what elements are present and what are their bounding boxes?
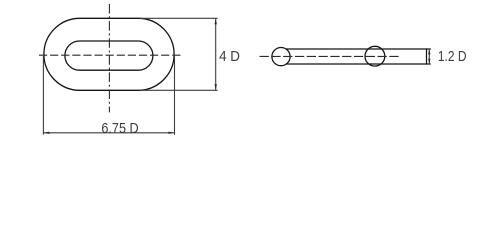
arrowhead 4 D top bbox=[215, 19, 217, 25]
dimension line 6.75 D bbox=[43, 132, 174, 134]
extension line left (6.75 D) bbox=[42, 56, 44, 135]
link cross-section circle left bbox=[272, 48, 290, 66]
arrowhead 1.2 D bottom bbox=[428, 59, 430, 64]
arrowhead 4 D bottom bbox=[215, 84, 217, 90]
extension line right (6.75 D) bbox=[174, 56, 176, 135]
svg-text:1.2 D: 1.2 D bbox=[438, 49, 467, 65]
extension line bottom (4 D) bbox=[140, 89, 218, 91]
vertical centerline (front view) bbox=[108, 4, 110, 112]
arrowhead 1.2 D top bbox=[428, 49, 430, 54]
chain link outer outline (front view) bbox=[44, 18, 174, 90]
arrowhead 6.75 D right bbox=[169, 132, 175, 134]
horizontal centerline (side view) bbox=[260, 55, 401, 57]
link cross-section circle right bbox=[365, 46, 385, 66]
chain link inner slot (front view) bbox=[65, 41, 153, 70]
horizontal centerline (front view) bbox=[39, 54, 181, 56]
svg-text:4 D: 4 D bbox=[219, 49, 240, 65]
side view bar bottom edge bbox=[286, 63, 431, 65]
dimension line 4 D bbox=[215, 18, 217, 90]
extension line top (4 D) bbox=[140, 17, 218, 19]
arrowhead 6.75 D left bbox=[44, 132, 50, 134]
svg-text:6.75 D: 6.75 D bbox=[101, 121, 138, 137]
side view bar right end edge bbox=[426, 48, 428, 64]
dimension line 1.2 D bbox=[428, 49, 430, 64]
side view bar top edge bbox=[286, 48, 431, 50]
